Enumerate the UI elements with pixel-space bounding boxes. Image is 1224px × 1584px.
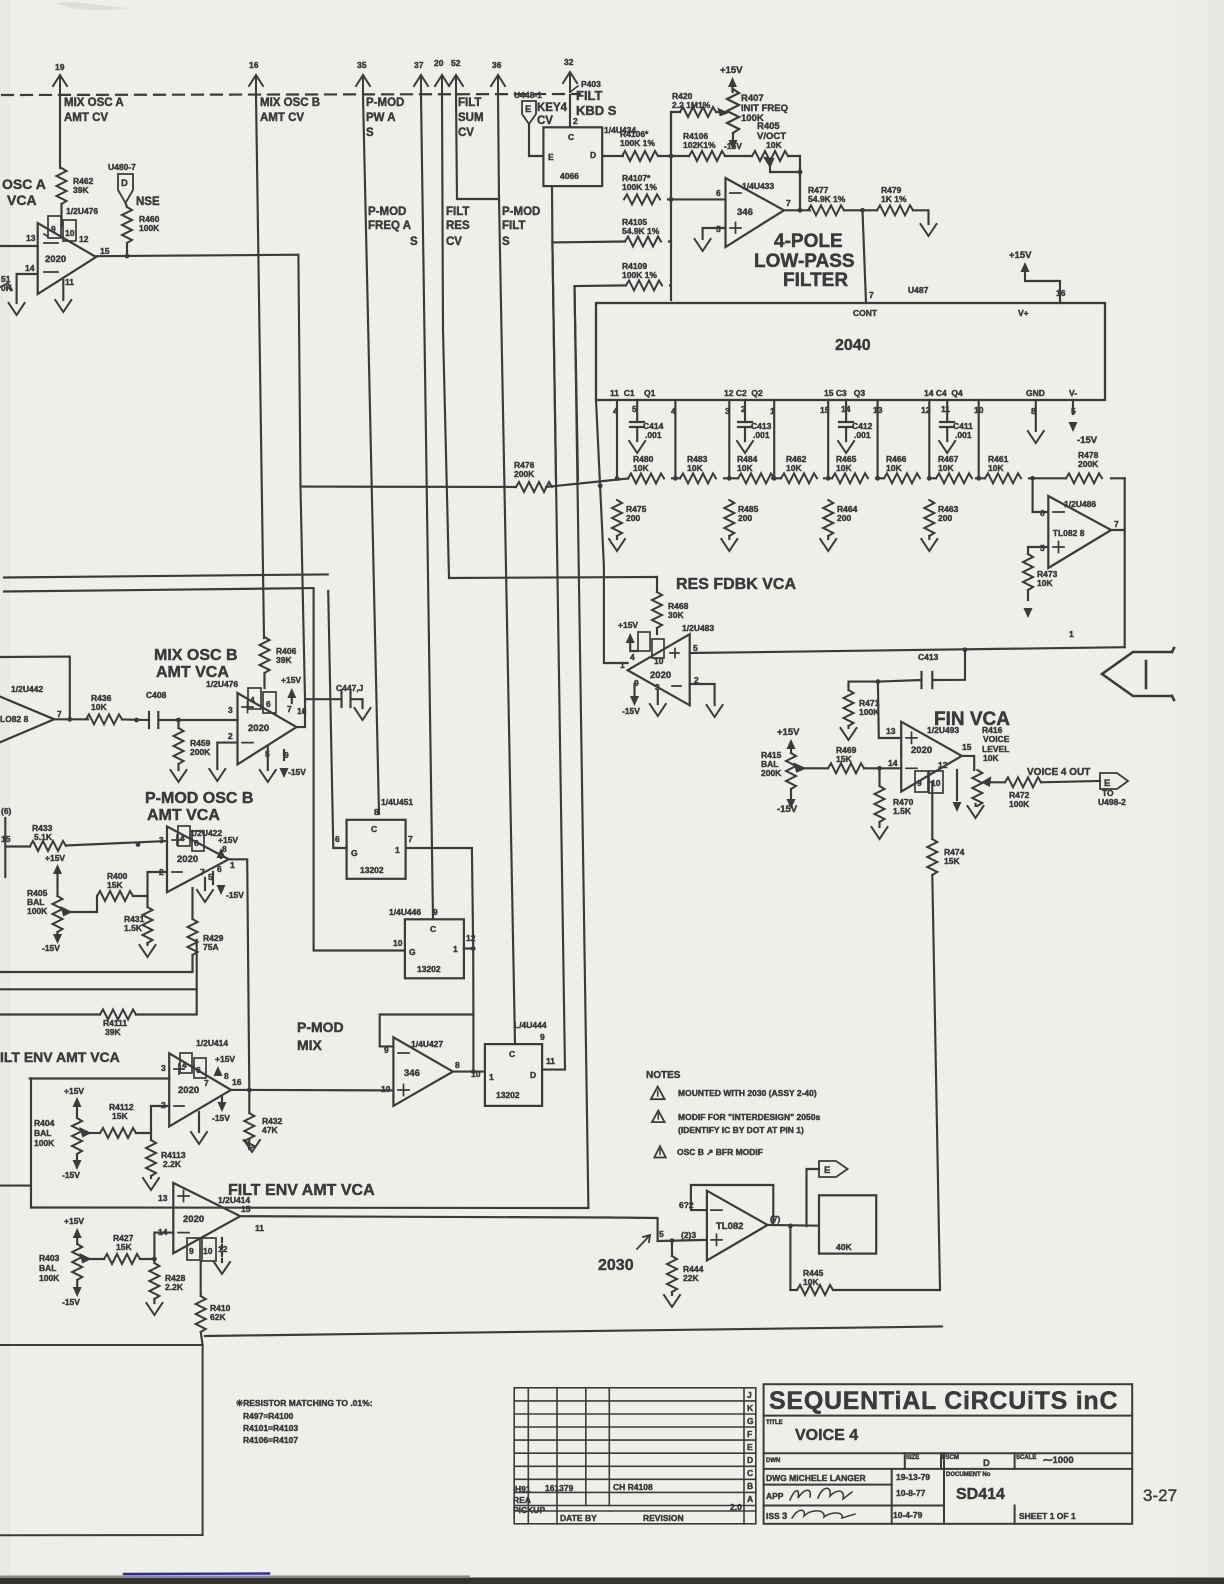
wire R468 to U483 xyxy=(656,628,658,634)
svg-text:SUM: SUM xyxy=(458,112,484,124)
node P403 xyxy=(570,79,601,92)
wire U483 output to loop xyxy=(690,647,1125,653)
ground R464 xyxy=(820,539,836,551)
svg-text:36: 36 xyxy=(492,60,502,70)
svg-text:2: 2 xyxy=(573,116,578,126)
svg-text:H91: H91 xyxy=(515,1484,531,1494)
svg-text:9: 9 xyxy=(51,224,56,234)
resistor R4113 xyxy=(146,1133,186,1178)
scan bottom edge bar xyxy=(0,1578,1224,1584)
svg-text:200: 200 xyxy=(626,513,640,523)
capacitor C413a xyxy=(738,400,772,441)
svg-text:14: 14 xyxy=(25,263,35,273)
svg-text:FREQ A: FREQ A xyxy=(368,220,411,232)
resistor R462b xyxy=(781,454,817,483)
svg-text:9: 9 xyxy=(917,778,922,788)
svg-text:(7): (7) xyxy=(770,1214,781,1224)
svg-text:G: G xyxy=(351,848,358,858)
wire: top dashed CV line xyxy=(2,94,580,95)
svg-text:62K: 62K xyxy=(210,1312,226,1322)
pen mark blue line xyxy=(124,1572,269,1575)
wire U414a pin5 ground xyxy=(198,1112,200,1132)
svg-text:FILT: FILT xyxy=(502,220,525,232)
wire pin16 down to R406 xyxy=(256,95,264,638)
svg-text:2020: 2020 xyxy=(177,854,198,865)
svg-text:5: 5 xyxy=(659,1229,664,1239)
label resistor matching note xyxy=(236,1398,373,1445)
svg-text:11 C1 Q1: 11 C1 Q1 xyxy=(610,388,656,398)
label OSC A VCA xyxy=(2,176,46,208)
svg-text:D: D xyxy=(747,1455,753,1465)
svg-text:15K: 15K xyxy=(107,880,123,890)
node pin 36 xyxy=(491,60,505,95)
ground pin stub xyxy=(974,804,976,806)
IC U444 13202 xyxy=(471,1020,555,1106)
label P-MOD PW A S xyxy=(366,97,404,139)
wire row y989 xyxy=(0,940,197,989)
resistor R484 xyxy=(737,454,774,483)
svg-text:13202: 13202 xyxy=(496,1090,520,1100)
svg-text:DWN: DWN xyxy=(766,1458,780,1464)
svg-text:-15V: -15V xyxy=(62,1170,80,1180)
wire vert junction col xyxy=(670,112,672,199)
svg-text:10K: 10K xyxy=(938,463,954,473)
svg-text:2020: 2020 xyxy=(650,670,671,681)
svg-text:4: 4 xyxy=(180,833,185,843)
svg-text:+15V: +15V xyxy=(777,727,800,738)
svg-text:12 C2 Q2: 12 C2 Q2 xyxy=(724,388,763,398)
title block letter column xyxy=(747,1390,754,1504)
scan tone left edge xyxy=(0,0,10,1584)
capacitor C408 xyxy=(146,690,238,728)
svg-text:10K: 10K xyxy=(786,463,802,473)
svg-text:CH R4108: CH R4108 xyxy=(613,1482,653,1492)
op-amp U476a xyxy=(25,206,110,294)
label FILT SUM CV xyxy=(458,97,484,139)
svg-text:13: 13 xyxy=(26,233,36,243)
wire 346 feedback from pot xyxy=(799,166,801,210)
svg-text:DWG MICHELE LANGER: DWG MICHELE LANGER xyxy=(766,1473,866,1483)
resistor R461 xyxy=(985,454,1021,483)
svg-text:PICKUP: PICKUP xyxy=(513,1505,545,1515)
svg-text:-15V: -15V xyxy=(42,943,60,953)
wire U414a output xyxy=(231,1089,393,1092)
wire U476b output up to bus xyxy=(297,487,342,727)
svg-text:4066: 4066 xyxy=(560,171,579,181)
wire 346 output xyxy=(784,209,810,211)
connector E flag VOICE4OUT xyxy=(1098,773,1128,807)
supply -15V U422 pin xyxy=(217,885,245,900)
svg-text:C: C xyxy=(747,1468,753,1478)
supply arrow R473 xyxy=(1024,590,1033,618)
svg-text:AMT CV: AMT CV xyxy=(64,112,108,124)
supply +15V R405b xyxy=(45,853,65,896)
svg-text:D: D xyxy=(983,1458,990,1469)
svg-text:8: 8 xyxy=(455,1060,460,1070)
svg-text:+15V: +15V xyxy=(215,1054,235,1064)
svg-text:6: 6 xyxy=(194,838,199,848)
svg-text:PW A: PW A xyxy=(366,112,396,124)
wire pin37 down to U446 pin9 xyxy=(421,95,433,919)
svg-text:14: 14 xyxy=(888,758,898,768)
svg-text:-15V: -15V xyxy=(1077,435,1098,446)
svg-text:10K: 10K xyxy=(983,753,999,763)
svg-text:52: 52 xyxy=(451,58,461,68)
potentiometer R404 BAL 100K xyxy=(34,1118,100,1160)
svg-text:3: 3 xyxy=(782,1511,787,1522)
svg-text:10: 10 xyxy=(381,1084,391,1094)
resistor R427 xyxy=(104,1233,140,1264)
supply +15V R404 xyxy=(64,1086,84,1118)
IC 4066 xyxy=(543,116,636,186)
ground R432 xyxy=(244,1140,260,1152)
svg-text:(6): (6) xyxy=(1,806,12,816)
svg-text:7: 7 xyxy=(287,704,292,714)
wire TL082 output xyxy=(768,1224,819,1227)
svg-text:GND: GND xyxy=(1026,388,1045,398)
svg-text:1/2U442: 1/2U442 xyxy=(11,684,43,694)
capacitor C447 xyxy=(336,683,364,708)
wire R410 down to box xyxy=(201,1332,203,1345)
svg-text:1/4U451: 1/4U451 xyxy=(381,797,413,807)
resistor R473 xyxy=(1023,547,1058,590)
svg-text:4: 4 xyxy=(250,695,255,705)
op-amp U486 xyxy=(1040,496,1119,568)
wire 2030 pin5 stub xyxy=(658,1240,707,1241)
svg-text:11: 11 xyxy=(255,1223,264,1233)
resistor edge stub xyxy=(0,274,13,293)
wire pin 11 xyxy=(62,280,64,300)
ground R475 xyxy=(609,539,625,551)
svg-text:13202: 13202 xyxy=(417,964,441,974)
svg-text:C408: C408 xyxy=(146,690,167,700)
svg-text:1: 1 xyxy=(489,1072,494,1082)
supply +15V U476b xyxy=(281,675,301,703)
svg-text:1: 1 xyxy=(230,860,235,870)
svg-text:100K: 100K xyxy=(39,1273,60,1283)
svg-text:10K: 10K xyxy=(1037,578,1053,588)
resistor R464 xyxy=(823,500,857,539)
svg-text:-15V: -15V xyxy=(226,890,244,900)
svg-text:.001: .001 xyxy=(854,430,871,440)
resistor R467 xyxy=(936,454,972,483)
wire R474 tap xyxy=(931,782,933,839)
supply -15V R403 xyxy=(62,1287,82,1307)
svg-text:(2)3: (2)3 xyxy=(681,1230,696,1240)
resistor R474 xyxy=(927,839,964,875)
wire R427 to pin14 xyxy=(140,1233,173,1259)
symbol slash 2030 xyxy=(637,1235,650,1249)
wire R429 to row xyxy=(0,955,193,972)
svg-text:DOCUMENT No: DOCUMENT No xyxy=(946,1472,991,1478)
node pin 32 xyxy=(563,57,577,92)
svg-text:R404: R404 xyxy=(34,1118,55,1128)
wire 20-line into R468 xyxy=(656,577,658,592)
wire big box bottom xyxy=(205,1327,942,1337)
svg-text:E: E xyxy=(548,152,554,162)
svg-text:2030: 2030 xyxy=(598,1257,634,1274)
svg-text:KEY4: KEY4 xyxy=(537,102,568,114)
supply -15V R405b xyxy=(42,934,62,953)
trimmer box 40K xyxy=(819,1195,876,1253)
supply +15V U483 xyxy=(618,620,638,651)
wire pot right end xyxy=(788,156,800,210)
node pin 52 xyxy=(449,58,463,95)
connector D shield NSE xyxy=(118,174,133,203)
resistor R4105 xyxy=(622,217,661,247)
connector E shield KEY4 xyxy=(522,101,536,124)
ground pin11 xyxy=(55,300,71,312)
svg-text:NSE: NSE xyxy=(136,196,160,208)
note 2 triangle xyxy=(652,1111,665,1123)
svg-text:54.9K 1%: 54.9K 1% xyxy=(622,226,660,236)
svg-text:-15V: -15V xyxy=(62,1297,80,1307)
svg-text:FILT: FILT xyxy=(446,206,469,218)
svg-text:10: 10 xyxy=(654,656,664,666)
potentiometer R416 VOICE LEVEL xyxy=(972,725,1009,806)
supply -15V pin9 xyxy=(280,750,307,778)
svg-text:3-27: 3-27 xyxy=(1143,1486,1177,1505)
resistor R410 xyxy=(196,1296,231,1332)
svg-text:2.0: 2.0 xyxy=(730,1502,742,1512)
wire R4105 left corner down xyxy=(552,242,625,481)
svg-text:9: 9 xyxy=(540,1032,545,1042)
wire KEY4 to 4066 xyxy=(529,124,543,156)
wire R420 right to pot wiper xyxy=(716,111,724,113)
svg-text:40K: 40K xyxy=(836,1242,852,1252)
svg-text:+15V: +15V xyxy=(64,1086,84,1096)
wire R436 to C408 xyxy=(122,718,149,721)
connector arrow 1 xyxy=(1102,648,1174,700)
svg-text:U480-7: U480-7 xyxy=(108,162,136,172)
svg-text:SCALE: SCALE xyxy=(1016,1455,1036,1461)
svg-text:CV: CV xyxy=(458,127,474,139)
svg-text:TL082 8: TL082 8 xyxy=(1053,528,1085,538)
svg-text:CV: CV xyxy=(537,115,553,127)
wire input 13 xyxy=(0,245,38,247)
svg-text:6: 6 xyxy=(217,864,222,874)
potentiometer R403 BAL 100K xyxy=(39,1244,104,1287)
connector E flag 2030 xyxy=(819,1161,848,1177)
ground C447 xyxy=(355,708,371,720)
svg-text:12: 12 xyxy=(938,760,948,770)
svg-text:MIX: MIX xyxy=(297,1037,323,1053)
svg-text:1.5K: 1.5K xyxy=(124,923,143,933)
wire C413 left junction down xyxy=(878,682,901,738)
svg-text:200K: 200K xyxy=(1078,459,1099,469)
pin boxes U493 xyxy=(915,760,948,793)
svg-text:V+: V+ xyxy=(1018,308,1029,318)
svg-text:FILT: FILT xyxy=(458,97,481,109)
svg-text:1/4U446: 1/4U446 xyxy=(389,907,421,917)
svg-text:LO82 8: LO82 8 xyxy=(0,714,29,724)
svg-text:11: 11 xyxy=(65,277,74,287)
svg-text:P-MOD: P-MOD xyxy=(502,206,540,218)
svg-text:102K1%: 102K1% xyxy=(683,140,716,150)
op-amp U493 xyxy=(886,722,972,792)
svg-text:RES FDBK VCA: RES FDBK VCA xyxy=(676,576,796,593)
wire R4107 row to opamp xyxy=(668,198,726,200)
op-amp U414a xyxy=(161,1038,242,1127)
svg-text:ISS: ISS xyxy=(766,1511,780,1521)
svg-text:100K: 100K xyxy=(27,906,48,916)
svg-text:+15V: +15V xyxy=(45,853,65,863)
resistor R468 xyxy=(652,592,689,628)
wire pin12 stub xyxy=(221,1238,223,1262)
svg-text:1.5K: 1.5K xyxy=(893,806,912,816)
svg-text:7: 7 xyxy=(57,709,62,719)
svg-text:13: 13 xyxy=(158,1193,168,1203)
wire R4109 left corner down xyxy=(575,285,627,480)
supply arrow pin12 xyxy=(953,770,962,812)
wire left edge into U414b xyxy=(0,1079,31,1208)
svg-text:15K: 15K xyxy=(112,1111,128,1121)
potentiometer R405b BAL 100K xyxy=(27,888,97,935)
svg-text:L/4U444: L/4U444 xyxy=(514,1020,547,1030)
svg-text:30K: 30K xyxy=(668,610,684,620)
wire U427 output to U444 xyxy=(453,1071,485,1073)
svg-text:MIX OSC B: MIX OSC B xyxy=(154,647,238,664)
svg-text:15 C3 Q3: 15 C3 Q3 xyxy=(824,388,865,398)
svg-text:10-4-79: 10-4-79 xyxy=(893,1510,923,1520)
svg-text:V-: V- xyxy=(1069,388,1077,398)
capacitor C413 xyxy=(878,650,965,688)
svg-text:6: 6 xyxy=(716,188,721,198)
svg-text:10: 10 xyxy=(203,1246,213,1256)
resistor R4106b 102K xyxy=(683,131,725,161)
wire 346 plus input ground xyxy=(703,228,726,239)
label MIX OSC B AMT VCA xyxy=(154,647,238,681)
resistor R405 pot xyxy=(752,151,800,172)
svg-text:9: 9 xyxy=(384,1045,389,1055)
supply -15V U414a xyxy=(212,1096,230,1123)
resistor R462 xyxy=(57,168,94,204)
svg-text:10K: 10K xyxy=(687,463,703,473)
wire pin52 jog xyxy=(456,95,499,199)
svg-text:-15V: -15V xyxy=(724,141,742,151)
resistor R459 xyxy=(174,720,212,770)
svg-text:BAL: BAL xyxy=(34,1128,51,1138)
svg-text:10K: 10K xyxy=(766,140,782,150)
ground R459 xyxy=(171,770,187,782)
label P-MOD FILT S xyxy=(502,206,540,248)
svg-text:B: B xyxy=(747,1481,753,1491)
resistor R475 xyxy=(612,500,647,539)
wire 2040 left edge down to RES FDBK xyxy=(596,400,604,566)
svg-text:C: C xyxy=(430,924,436,934)
svg-text:VCA: VCA xyxy=(7,192,37,208)
svg-text:1: 1 xyxy=(453,944,458,954)
op-amp U483 xyxy=(620,623,714,705)
svg-text:9: 9 xyxy=(634,678,639,688)
svg-text:7: 7 xyxy=(200,867,205,877)
node pin 16 xyxy=(249,60,263,95)
title block main box xyxy=(764,1384,1133,1524)
scan smudge top left xyxy=(55,2,130,10)
wire left edge feeds xyxy=(4,574,328,591)
svg-text:1/2U414: 1/2U414 xyxy=(196,1038,228,1048)
svg-text:MODIF FOR "INTERDESIGN" 2050s: MODIF FOR "INTERDESIGN" 2050s xyxy=(678,1112,820,1122)
svg-text:VOICE: VOICE xyxy=(983,734,1010,744)
wire U446 pin10 xyxy=(314,590,405,951)
svg-text:AMT CV: AMT CV xyxy=(260,112,304,124)
wire 4066 pin1 down xyxy=(551,186,554,242)
wire pin20/52 down then to RES FDBK xyxy=(442,95,657,578)
ground R485 xyxy=(721,539,737,551)
label P-MOD OSC B AMT VCA xyxy=(145,790,253,824)
label FILT KBD S xyxy=(576,88,617,118)
svg-text:15K: 15K xyxy=(836,754,852,764)
svg-text:100K 1%: 100K 1% xyxy=(622,182,657,192)
label 4-POLE LOW-PASS FILTER xyxy=(754,231,855,291)
wire R477 to R479 xyxy=(844,209,877,211)
resistor R470 xyxy=(875,768,914,827)
wire pin19 down xyxy=(59,95,61,168)
node pin 35 xyxy=(356,60,370,95)
svg-text:346: 346 xyxy=(404,1068,420,1079)
wire R410 column xyxy=(200,1261,202,1296)
resistor R460 xyxy=(122,203,160,243)
resistor R436 xyxy=(86,693,122,724)
svg-text:1/2U483: 1/2U483 xyxy=(682,623,714,633)
node pin 19 xyxy=(53,62,67,95)
svg-text:14 C4 Q4: 14 C4 Q4 xyxy=(924,388,963,398)
svg-text:15: 15 xyxy=(100,246,110,256)
wire filter bus xyxy=(301,478,1125,487)
pins 7 5 6 stubs U422 xyxy=(200,864,222,890)
svg-text:C: C xyxy=(568,132,574,142)
svg-text:LOW-PASS: LOW-PASS xyxy=(754,251,855,272)
revision table entries xyxy=(513,1482,742,1523)
resistor R429 xyxy=(188,888,224,955)
svg-text:C413: C413 xyxy=(918,652,939,662)
svg-text:C: C xyxy=(509,1049,515,1059)
svg-text:2: 2 xyxy=(159,867,164,877)
IC U446 13202 xyxy=(389,907,476,978)
wire R4112 to pin2 xyxy=(136,1106,169,1133)
note 2 text xyxy=(678,1112,820,1135)
svg-text:200: 200 xyxy=(738,513,752,523)
svg-text:100K: 100K xyxy=(34,1138,55,1148)
svg-text:13202: 13202 xyxy=(360,865,384,875)
svg-text:-15V: -15V xyxy=(288,767,306,777)
svg-text:161379: 161379 xyxy=(545,1483,574,1493)
svg-text:100K: 100K xyxy=(859,707,880,717)
svg-text:100K 1%: 100K 1% xyxy=(620,138,655,148)
supply +15V V+ pin xyxy=(1009,250,1060,303)
wire 4066 line down to U444 pin9 xyxy=(542,242,565,1069)
wire TL082 feedback loop xyxy=(691,1185,773,1225)
supply -15V V- pin xyxy=(1069,400,1098,446)
svg-text:1/2U493: 1/2U493 xyxy=(927,725,959,735)
wire R479 to ground xyxy=(913,210,929,224)
resistor R480 xyxy=(628,454,664,484)
svg-text:-15V: -15V xyxy=(622,706,640,716)
svg-text:200K: 200K xyxy=(761,768,782,778)
svg-text:R403: R403 xyxy=(39,1253,60,1263)
svg-text:MIX OSC A: MIX OSC A xyxy=(64,97,124,109)
svg-text:APP: APP xyxy=(766,1491,784,1501)
svg-text:19: 19 xyxy=(55,62,65,72)
pin boxes U414b xyxy=(187,1238,228,1261)
wire OSC A output across xyxy=(96,255,301,487)
resistor R428 xyxy=(149,1259,185,1303)
svg-text:12: 12 xyxy=(79,234,89,244)
resistor R465 xyxy=(832,454,868,483)
svg-text:5: 5 xyxy=(693,643,698,653)
svg-text:CV: CV xyxy=(446,236,462,248)
wire U476b minus input ground xyxy=(217,743,237,769)
